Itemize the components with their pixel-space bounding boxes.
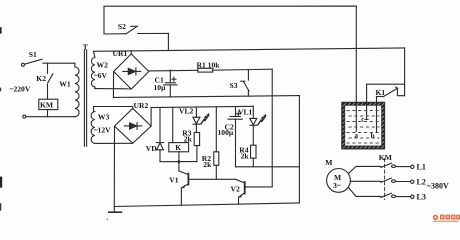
svg-text:T: T: [83, 42, 88, 51]
svg-text:R1 10k: R1 10k: [197, 60, 221, 69]
svg-text:S1: S1: [29, 50, 37, 59]
svg-text:2k: 2k: [203, 160, 212, 169]
svg-text:2k: 2k: [184, 135, 193, 144]
svg-text:~6V: ~6V: [94, 71, 108, 80]
svg-text:VL1: VL1: [238, 108, 253, 117]
svg-text:~220V: ~220V: [10, 84, 31, 93]
svg-text:UR2: UR2: [134, 101, 149, 110]
svg-text:10μ: 10μ: [154, 83, 167, 92]
svg-text:b: b: [371, 132, 375, 140]
svg-text:2k: 2k: [241, 151, 250, 160]
svg-text:~12V: ~12V: [94, 125, 112, 134]
svg-text:KM: KM: [40, 101, 53, 110]
svg-text:L2: L2: [417, 177, 426, 186]
svg-text:VL2: VL2: [179, 106, 194, 115]
svg-text:W2: W2: [97, 60, 109, 69]
svg-text:S2: S2: [118, 22, 126, 31]
svg-text:V2: V2: [231, 184, 240, 193]
svg-text:3~: 3~: [333, 181, 341, 190]
svg-text:L3: L3: [417, 193, 426, 202]
svg-text:W3: W3: [98, 113, 110, 122]
svg-text:KM: KM: [379, 153, 392, 162]
svg-text:L1: L1: [417, 163, 426, 172]
svg-text:M: M: [325, 158, 332, 167]
svg-text:UR1: UR1: [113, 49, 128, 58]
svg-text:V1: V1: [169, 176, 178, 185]
svg-text:K2: K2: [36, 74, 46, 83]
svg-text:W1: W1: [59, 80, 71, 89]
svg-text:~380V: ~380V: [427, 181, 449, 190]
svg-text:K: K: [175, 143, 181, 152]
svg-text:VD: VD: [146, 144, 157, 153]
svg-text:K1: K1: [376, 88, 386, 97]
svg-text:c: c: [361, 115, 364, 123]
svg-text:100μ: 100μ: [218, 128, 234, 137]
svg-text:S3: S3: [230, 81, 238, 90]
svg-text:a: a: [355, 132, 359, 140]
